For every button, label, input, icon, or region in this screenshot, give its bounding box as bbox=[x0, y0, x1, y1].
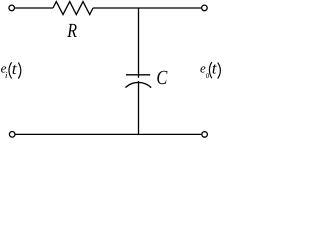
capacitor C top plate bbox=[126, 74, 150, 76]
terminal BL bbox=[9, 132, 15, 138]
capacitor C bottom curved plate bbox=[126, 82, 152, 87]
wire top-right segment bbox=[93, 7, 201, 9]
svg-text:R: R bbox=[67, 20, 78, 42]
resistor R bbox=[53, 2, 93, 15]
svg-text:o: o bbox=[206, 70, 210, 81]
terminal TL bbox=[9, 5, 15, 11]
wire capacitor bottom lead bbox=[138, 81, 140, 134]
wire bottom rail bbox=[16, 133, 202, 135]
terminal TR bbox=[202, 5, 208, 11]
terminal BR bbox=[202, 132, 208, 138]
wire capacitor top lead bbox=[138, 8, 140, 78]
svg-text:e: e bbox=[200, 60, 206, 75]
label eo(t) bbox=[200, 59, 220, 81]
svg-text:i: i bbox=[5, 70, 8, 80]
svg-text:C: C bbox=[156, 67, 167, 89]
label ei(t) bbox=[1, 59, 21, 80]
wire top-left segment bbox=[15, 7, 53, 9]
svg-text:t: t bbox=[12, 59, 17, 78]
svg-text:t: t bbox=[212, 59, 217, 78]
